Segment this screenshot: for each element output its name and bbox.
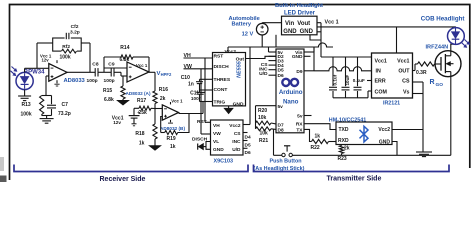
screen artifact left edge [0,157,7,182]
resistor R15 [121,76,125,99]
LED driver GND drop [310,35,321,40]
battery symbol [256,23,268,35]
svg-text:X9C103: X9C103 [214,158,233,164]
label 0.1uf first [333,74,338,85]
wire VW down to X9C103 [200,69,202,134]
arduino pin Vin [295,50,302,56]
wire arduino 5v lower rail [256,106,277,129]
svg-text:TRIG: TRIG [214,99,226,105]
wire to AD8032B inverting input [155,108,162,110]
svg-text:Vcc1: Vcc1 [375,59,387,65]
wire THRES [200,78,213,80]
resistor R23 [339,145,343,156]
svg-text:VL: VL [213,139,219,145]
transistor IRFZ44N label [426,45,449,51]
svg-text:RX: RX [296,122,303,128]
node VHPF2 label [157,71,172,77]
svg-text:Battery: Battery [232,21,252,27]
svg-text:U/D: U/D [232,147,241,153]
ground under R18 [149,146,161,151]
resistor R17 [134,106,155,110]
svg-text:Vcc2: Vcc2 [229,123,241,129]
svg-text:CS: CS [234,131,241,137]
wire cap ground rail [333,91,372,98]
wire output to TRIG [202,102,204,114]
bluetooth HM-10 box [336,122,392,145]
svg-text:NE555: NE555 [237,60,243,78]
arduino pin D7 [278,123,284,129]
resistor Rf2 value [60,54,71,60]
svg-text:INC: INC [232,139,241,145]
wire CS [413,81,424,83]
svg-text:RXD: RXD [338,138,349,144]
svg-text:D5: D5 [245,142,251,148]
op-amp AD8032B supply label [171,99,183,104]
rail branch to IR2121 right Vcc [396,27,398,53]
LED driver header [275,3,323,16]
svg-text:DISCH: DISCH [192,136,208,142]
resistor R16 labels [159,87,168,102]
wire Vin drop [275,35,277,47]
resistor R13 label [21,102,32,118]
timer NE555 pin DISCH [214,64,230,70]
wire R14 to AD8032A output [148,57,150,72]
svg-text:25k: 25k [139,110,148,116]
svg-text:100n: 100n [191,96,202,101]
svg-text:Vcc2: Vcc2 [378,127,390,133]
wire RC bottom rail [42,115,52,119]
rail wA with hop [228,43,333,47]
svg-text:GND: GND [283,29,297,35]
svg-text:10k: 10k [260,131,269,137]
resistor R21 labels [259,131,268,145]
svg-text:R13: R13 [22,102,31,108]
automobile battery label [229,16,260,37]
svg-text:73.2p: 73.2p [58,111,71,117]
svg-text:Cf2: Cf2 [71,24,79,30]
svg-text:C10: C10 [181,75,190,81]
svg-text:R17: R17 [137,98,146,104]
svg-text:THRES: THRES [214,77,231,83]
arduino left stubs [269,52,277,75]
wire AD8032A inverting input [104,67,127,69]
svg-text:1k: 1k [315,133,321,139]
label 0.1uF second [353,78,365,83]
wire Vcc2 branch down [249,47,251,125]
X9C103 pin INC [232,139,241,145]
arduino name [279,89,303,105]
svg-text:10k: 10k [258,115,267,121]
ground under R15 [117,99,129,105]
svg-text:0.1uF: 0.1uF [353,78,365,83]
arduino nano box [276,49,304,133]
net label U/D [259,71,268,77]
op-amp AD8032 (B) [162,102,178,123]
ground under R13 C7 [40,119,54,124]
VL capacitor symbol [198,144,206,150]
timer NE555 pin Vcc2 [225,49,237,55]
capacitor C9 [111,68,121,76]
wire Vs [413,93,424,95]
bias supply capacitor [129,108,141,126]
wire VH down to X9C103 [204,58,206,122]
svg-text:HPF2: HPF2 [161,72,172,77]
rail Vcc1 label [325,19,339,25]
svg-text:DISCH: DISCH [214,64,230,70]
label 10uF [345,75,350,86]
bluetooth logo [360,126,369,142]
capacitor 10uF [342,57,350,98]
transmitter side label [327,175,382,182]
wire AD8033 output [67,71,95,73]
photodiode BPW34 label [24,70,45,76]
net label D6 [245,150,251,156]
svg-text:1k: 1k [170,144,176,150]
resistor R14 value [120,57,130,63]
wire CS Vs to ground [422,82,424,152]
net label VH [184,53,191,59]
wire AD8032B output [179,113,203,115]
net label D5 [245,142,251,148]
LED light arrows [462,40,470,48]
light arrows into photodiode [11,67,17,76]
capacitor C7 label [58,102,71,117]
svg-text:Push Button: Push Button [270,158,302,164]
svg-text:LED Driver: LED Driver [284,10,316,16]
resistor R17 labels [137,98,147,116]
HM-10 pin GND [379,140,391,146]
timer NE555 pin RST [214,53,224,59]
arduino pin 5v right [297,114,303,120]
arduino pin D6 [278,73,284,79]
svg-text:Vcc 1: Vcc 1 [136,63,148,68]
resistor R21 [256,127,277,131]
net label INC [259,66,268,72]
svg-text:AD8033: AD8033 [64,78,86,84]
IR2121 pin OUT [398,69,410,75]
IR2121 pin Vs [403,90,410,96]
svg-text:2k: 2k [344,146,350,152]
arduino logo [282,79,298,86]
svg-text:ERR: ERR [375,79,386,85]
resistor 0.3R label [416,70,427,76]
svg-text:D6: D6 [278,73,284,79]
svg-text:Vcc2: Vcc2 [225,49,237,55]
net label CS [261,62,269,68]
X9C103 pin VW [213,131,221,137]
capacitor C10 label [181,75,194,88]
IR2121 pin IN [376,69,381,75]
resistor R20 [256,121,277,125]
LED driver GND stub [317,31,321,33]
transmitter side bracket [254,165,450,172]
X9C103 pin Vcc2 [229,123,241,129]
rail branch to IR2121 Vcc [321,23,372,57]
capacitor C9 labels [104,62,115,84]
X9C103 pin CS [234,131,241,137]
arduino pin D3 [278,59,284,65]
push button label [254,158,305,172]
wire photodiode to ground [24,90,26,96]
resistor R16 [153,72,157,108]
resistor R19 labels [167,136,176,150]
resistor R15 labels [103,88,114,103]
svg-text:IR2121: IR2121 [383,101,400,107]
wire TRIG [200,101,213,103]
wire AD8033 noninverting input [46,76,49,96]
svg-text:R22: R22 [311,145,320,151]
svg-text:100k: 100k [60,54,71,60]
receiver side bracket [14,165,248,172]
svg-text:0.3R: 0.3R [416,70,427,76]
border frame [10,5,470,181]
svg-text:R23: R23 [338,156,347,162]
X9C103 VW stub [201,133,211,135]
arduino pin TX [296,127,303,133]
X9C103 pin GND [213,147,224,153]
LED driver Vout stub [317,22,321,24]
arduino pin D4 [278,63,284,69]
wire NE555 Vcc2 stub [227,47,229,53]
resistor Rf2 [62,49,77,53]
resistor Rf2 label [62,44,70,50]
resistor R19 [161,114,189,135]
svg-text:12v: 12v [42,58,50,63]
svg-text:VH: VH [213,123,220,129]
resistor RGO 0.3R [413,62,442,71]
svg-text:C8: C8 [92,62,99,68]
svg-text:COB Headlight: COB Headlight [421,16,465,23]
IR2121 pin Vcc1 right [397,59,409,65]
svg-text:2k: 2k [160,96,166,102]
capacitor C8 labels [87,62,99,84]
svg-text:Receiver Side: Receiver Side [100,176,146,182]
X9C103 VH stub [205,121,211,123]
svg-text:0.1uf: 0.1uf [333,74,338,85]
capacitor C11 label [190,91,202,101]
wire RC top rail [42,95,52,97]
svg-text:D8: D8 [278,127,284,133]
net label RST [197,119,207,125]
resistor R23 labels [338,146,350,162]
svg-text:GND: GND [233,101,244,107]
wire battery plus to Vin [262,22,281,25]
svg-text:10uF: 10uF [345,75,350,86]
svg-text:R21: R21 [259,138,268,144]
svg-text:Vcc 1: Vcc 1 [325,19,339,25]
svg-text:3.2p: 3.2p [70,29,80,35]
receiver side label [100,176,146,183]
wire VH to RST [184,57,213,59]
timer NE555 pin Out [236,56,245,62]
svg-text:COM: COM [375,90,388,96]
svg-text:IN: IN [376,69,381,75]
capacitor Cf2 [66,33,69,39]
resistor R22 labels [311,133,321,151]
op-amp AD8032A supply label [136,63,148,68]
svg-text:R16: R16 [159,87,168,93]
op-amp AD8032B name [160,126,185,131]
push button [282,146,293,157]
svg-text:Arduino: Arduino [279,89,303,96]
svg-text:VW: VW [213,131,221,137]
LED driver pin GND left [283,29,297,35]
wire AD8032A output [149,71,155,73]
wire arduino Vin to rail [312,47,315,52]
svg-text:GND: GND [300,29,314,35]
feedback node wire [37,43,53,68]
op-amp AD8033 name [64,78,86,84]
wire HM10 Vcc2 right [392,129,423,131]
svg-text:100p: 100p [104,78,115,84]
arduino pin GND [292,54,303,60]
op-amp AD8033 supply label [40,54,52,63]
IR2121 pin CS [402,79,410,85]
svg-text:100k: 100k [21,112,32,118]
svg-text:D6: D6 [245,150,251,156]
svg-text:D9: D9 [296,69,302,75]
digital pot X9C103 box [211,120,244,155]
arduino pin D8 [278,127,284,133]
svg-text:R20: R20 [258,108,267,114]
net label D4 [245,135,251,141]
capacitor C8 [95,68,111,76]
wire push button to ground rail [292,154,450,156]
wire NE555 Out [246,56,277,58]
svg-text:100p: 100p [87,78,98,84]
svg-text:R18: R18 [135,131,144,137]
svg-text:OUT: OUT [398,69,410,75]
transistor IRFZ44N Q1 [435,44,461,155]
resistor R13 [40,96,44,115]
svg-text:R19: R19 [167,136,176,142]
svg-text:R14: R14 [120,45,129,51]
HM-10 pin TXD [339,127,349,133]
net label DISCH [192,136,208,142]
X9C103 right stubs [243,125,250,149]
capacitor C10 [196,79,203,90]
arduino 5v stub up [268,47,270,52]
timer NE555 box [213,53,246,106]
X9C103 pin VL [213,139,219,145]
timer NE555 pin TRIG [214,99,226,105]
capacitor C11 [196,90,204,102]
IR2121 pin ERR [375,79,386,85]
resistor R20 labels [258,108,267,121]
driver IR2121 box [372,53,413,98]
arduino pin D9 [296,69,302,75]
IR2121 pin COM [375,90,388,96]
wire into AD8032A noninverting input [121,72,127,76]
X9C103 pin VH [213,123,220,129]
arduino pin D5 [278,68,284,74]
svg-text:Vs: Vs [403,90,410,96]
svg-text:GND: GND [213,147,224,153]
IR2121 ERR stub [367,80,372,82]
svg-text:C9: C9 [108,62,115,68]
HM-10 pin Vcc2 [378,127,390,133]
photodiode BPW34 [16,72,33,89]
timer NE555 pin CONT [214,87,228,93]
op-amp AD8032A name [126,91,151,96]
capacitor C7 [47,96,56,116]
LED COB headlight [448,28,465,45]
COB headlight label [421,16,465,23]
svg-text:GND: GND [292,54,303,60]
svg-text:R: R [430,79,435,86]
svg-text:Vin: Vin [285,21,295,27]
wire battery minus down [261,35,263,47]
arduino right stubs [304,52,312,116]
wire arduino TX to R22 [304,129,312,141]
wire CONT [200,89,213,91]
feedback loop right wire [81,43,90,72]
IR2121 pin Vcc1 left [375,59,387,65]
svg-text:12v: 12v [113,120,121,125]
resistor R14 [104,55,149,59]
resistor R22 [312,139,337,143]
svg-text:IRFZ44N: IRFZ44N [426,45,449,51]
timer NE555 pin THRES [214,77,231,83]
svg-text:Vout: Vout [297,21,310,27]
timer NE555 pin GND [233,101,244,107]
arduino pin 5v left [278,50,284,56]
LED driver pin Vin [285,21,295,27]
wire photodiode to AD8033 inverting input [25,68,49,72]
IR2121 name [383,101,400,107]
svg-text:Vcc 1: Vcc 1 [171,99,183,104]
svg-text:D5: D5 [278,68,284,74]
X9C103 pin U/D [232,147,241,153]
capacitor 0.1uF first [329,57,337,98]
svg-text:Transmitter Side: Transmitter Side [327,175,382,182]
svg-text:AD8032 (B): AD8032 (B) [160,126,185,131]
ground under photodiode [18,96,31,101]
capacitor Cf2 label [70,24,80,35]
timer NE555 name [237,60,243,78]
rail Vcc1 [317,26,456,28]
svg-text:R15: R15 [103,88,112,94]
ground transmitter [416,152,432,157]
wire C8 C9 junction up [103,57,105,72]
wire VW to DISCH [184,68,213,70]
X9C103 name [214,158,233,164]
arduino pin D2 [278,54,284,60]
LED driver pin Vout [297,21,310,27]
svg-text:5v: 5v [297,114,303,120]
resistor R14 label [120,45,129,51]
LED driver box [282,16,318,35]
feedback RC rectangle [53,37,81,53]
svg-text:12 V: 12 V [242,31,254,37]
op-amp AD8032 (A) [127,62,149,82]
svg-text:D4: D4 [245,135,251,141]
svg-text:GO: GO [436,82,444,88]
supply Vcc1 12v label [112,115,124,125]
wire arduino RX to TXD [304,124,336,130]
HM-10 pin RXD [338,138,349,144]
svg-text:CONT: CONT [214,87,228,93]
resistor RGO name [430,79,444,88]
wire D9 to IR2121 IN [304,47,372,71]
svg-text:1k: 1k [139,141,145,147]
op-amp AD8033 [49,60,67,86]
svg-text:GND: GND [379,140,391,146]
svg-text:Nano: Nano [283,98,299,105]
arduino pin RX [296,122,303,128]
svg-text:U/D: U/D [259,71,268,77]
svg-text:6.8k: 6.8k [104,97,114,103]
